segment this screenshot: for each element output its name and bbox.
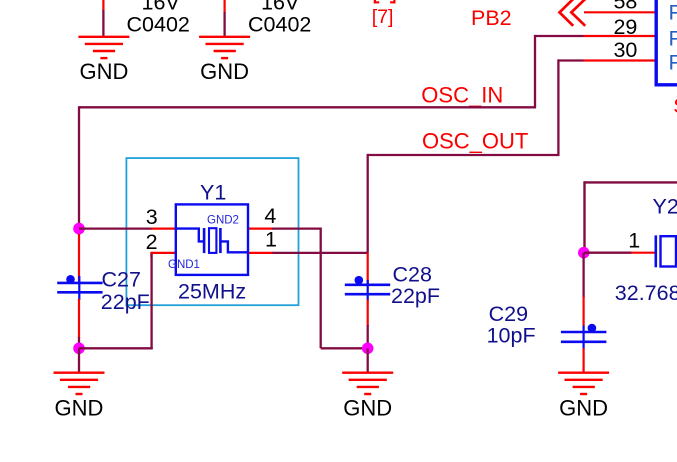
net label fragment above [7] (cut bracket feet) [374,0,396,3]
svg-text:4: 4 [264,204,276,228]
capacitor C28 [345,276,390,301]
crystal Y1 internal symbol [177,228,247,253]
wire OSC_IN: vertical drop at x=79 [78,106,80,235]
svg-text:C0402: C0402 [248,13,311,37]
pin 4 of Y1 [248,228,273,230]
capacitor C28 top lead [367,253,369,284]
wire: Y2 net vertical [583,181,585,253]
wire: Y1 pin4 to corner [272,227,321,229]
pin 2 of Y1 [151,252,176,258]
svg-text:30: 30 [613,38,637,62]
svg-text:C27: C27 [102,268,141,292]
svg-text:PB2: PB2 [471,6,512,30]
svg-text:58: 58 [613,0,637,14]
svg-text:29: 29 [613,15,637,39]
svg-text:3: 3 [146,205,158,229]
svg-text:P: P [669,27,677,51]
wire from cap #1 to ground [102,10,104,36]
wire OSC_IN: pin29 to corner [535,35,584,37]
selection box (cyan) around Y1 [126,158,298,305]
pin 58 of IC [584,11,656,13]
capacitor C27 bottom lead [78,299,80,338]
junction node (Y2 pin1 / C29) [578,247,590,259]
wire: node to Y2 pin 1 [584,252,632,254]
ground symbol GND (bottom #1) [54,373,105,394]
wire OSC_OUT: horizontal [368,154,560,156]
svg-text:Y1: Y1 [200,181,226,205]
junction node (C27 / pin2 / GND) [73,343,85,355]
capacitor C29 bottom lead [582,348,584,371]
pin 1 of Y1 [248,252,273,254]
svg-text:P: P [669,50,677,74]
pin 29 of IC [583,35,656,37]
wire: C27 to ground node [78,337,80,348]
svg-text:OSC_IN: OSC_IN [421,83,503,108]
wire OSC_IN: vertical drop at x=535 [534,35,536,107]
svg-text:2: 2 [146,230,158,254]
svg-text:C28: C28 [393,263,432,287]
junction node (C28 / GND2 / GND) [362,343,374,355]
svg-text:S: S [673,94,677,118]
svg-text:10pF: 10pF [487,324,536,348]
svg-text:Y2: Y2 [653,194,677,218]
ground symbol GND (top #2) [199,37,250,58]
crystal Y1 body [176,204,248,275]
svg-text:1: 1 [628,229,640,253]
svg-text:22pF: 22pF [101,290,150,314]
capacitor C27 [57,275,102,300]
svg-text:GND1: GND1 [168,259,200,271]
svg-text:GND: GND [343,396,392,421]
svg-text:25MHz: 25MHz [178,280,246,304]
svg-text:22pF: 22pF [391,284,440,308]
svg-text:OSC_OUT: OSC_OUT [422,128,528,153]
crystal Y2 (cut off at right) [656,235,676,267]
wire from cap #2 to ground [223,12,225,36]
capacitor C29 [561,324,607,349]
svg-text:32.768: 32.768 [615,281,677,305]
svg-text:C29: C29 [489,302,528,326]
wire: horizontal into C28 ground node [321,347,368,349]
junction node (OSC_IN / pin3 / C27) [73,223,85,235]
svg-text:P: P [669,1,677,25]
ground symbol GND (bottom #3) [558,373,609,394]
wire: vertical at x=320.7 (GND2 net) [320,228,322,349]
svg-text:[7]: [7] [372,6,394,28]
off-sheet connector chevron (pin 58 net) [560,0,586,26]
wire: node to ground symbol [78,348,80,371]
wire: C28 to ground node [367,325,369,348]
ground symbol GND (bottom #2) [342,373,393,394]
svg-text:C0402: C0402 [127,13,190,37]
capacitor C29 top lead [582,297,584,327]
wire: Y2 net horizontal (to right edge) [585,181,677,183]
wire: pin2 vertical at x=153 [150,254,152,350]
wire: Y1 pin1 to OSC_OUT vertical [273,252,368,254]
wire: node to ground symbol [367,348,369,371]
wire: node to Y1 pin 3 [79,227,152,229]
svg-text:GND: GND [200,59,249,84]
capacitor pin (16V C0402 cap #1, cut off at top) [102,0,104,11]
svg-text:GND2: GND2 [207,214,239,226]
svg-text:1: 1 [265,228,277,252]
wire OSC_OUT: vertical drop at x=368 [367,154,369,253]
capacitor pin (16V C0402 cap #2, cut off at top) [224,0,226,13]
pin 30 of IC [583,59,656,61]
svg-text:GND: GND [79,59,128,84]
capacitor C28 bottom lead [367,300,369,327]
ground symbol GND (top #1) [78,37,129,58]
svg-text:GND: GND [55,396,104,421]
IC U? body edge (blue box, cut off at right) [655,0,677,85]
wire OSC_OUT: pin30 to corner [558,59,583,61]
pin 3 of Y1 [151,228,176,230]
wire OSC_OUT: vertical drop at x=558 [557,59,559,155]
wire: node down toward C29 [582,253,584,298]
pin 1 of Y2 [631,252,656,254]
wire: node to pin2 vertical [79,347,153,349]
capacitor C27 top lead [78,234,80,284]
svg-text:GND: GND [559,396,608,421]
wire OSC_IN: long horizontal [79,106,536,108]
